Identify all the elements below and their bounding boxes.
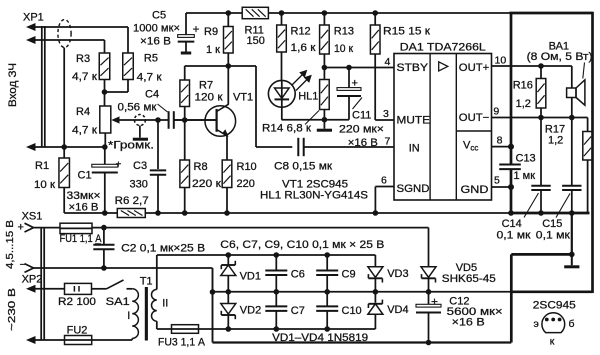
svg-text:HL1: HL1 [298, 91, 318, 103]
potentiometer R4 [104, 92, 106, 106]
svg-text:R8: R8 [194, 161, 208, 173]
R4 wiper arrow [117, 119, 168, 121]
svg-text:C1: C1 [78, 170, 92, 182]
svg-text:+: + [193, 22, 200, 36]
svg-text:C2 0,1 мк×25 В: C2 0,1 мк×25 В [121, 243, 205, 255]
svg-text:SA1: SA1 [106, 296, 130, 308]
VT1 collector [217, 104, 229, 111]
diode VD1 [227, 255, 229, 264]
svg-text:10 к: 10 к [34, 179, 55, 191]
svg-text:+: + [431, 295, 438, 309]
pin 7 wire IN [304, 146, 394, 148]
capacitor C2 [103, 228, 105, 245]
svg-text:1,2: 1,2 [516, 98, 531, 110]
svg-text:9: 9 [493, 106, 499, 118]
svg-text:6: 6 [381, 175, 387, 187]
wire secondary bottom [156, 321, 158, 329]
ground under R14 [323, 120, 325, 129]
svg-text:1,6 к: 1,6 к [291, 42, 316, 54]
svg-text:SHK65-45: SHK65-45 [442, 273, 496, 285]
svg-text:б: б [569, 318, 575, 330]
svg-text:VT1: VT1 [233, 92, 253, 104]
svg-text:R9: R9 [204, 26, 218, 38]
svg-text:C11: C11 [352, 110, 371, 122]
wire thick Vcc drop to pin 8 [510, 13, 513, 147]
svg-text:(8 Ом, 5 Вт): (8 Ом, 5 Вт) [527, 51, 593, 63]
shield drop wire [63, 48, 65, 148]
rectifier AC rail top y=255 [157, 254, 376, 256]
svg-text:3: 3 [383, 108, 389, 120]
svg-text:R13: R13 [334, 26, 354, 38]
svg-text:STBY: STBY [397, 62, 429, 74]
svg-text:220 к: 220 к [192, 178, 221, 190]
plus rail y=292 [213, 291, 512, 293]
XP1 pin 2 arrow and wire [26, 36, 36, 44]
diode VD4 [374, 292, 376, 303]
wire battery plus [34, 227, 61, 229]
svg-text:0,56 мк: 0,56 мк [118, 102, 157, 114]
svg-text:R2 100: R2 100 [58, 296, 96, 308]
resistor R17 [587, 118, 589, 132]
leader line C15 label [556, 194, 570, 218]
svg-text:120 к: 120 к [195, 92, 223, 104]
wire GND pin 5 [492, 186, 512, 188]
ground symbol PSU [571, 254, 573, 265]
svg-text:10: 10 [495, 55, 507, 67]
node collector wire to C8 [228, 65, 256, 67]
capacitor C8 [297, 138, 299, 156]
wire OUT- pin 9 [492, 117, 588, 119]
capacitor C10 [326, 292, 328, 307]
fuse FU1 [60, 223, 92, 233]
svg-text:R4: R4 [76, 106, 90, 118]
wire Vcc top bus thick part to right edge [510, 12, 593, 15]
leader line C4 label [158, 104, 168, 112]
svg-text:−: − [20, 259, 26, 271]
VT1 emitter with arrow [217, 130, 227, 136]
svg-text:×16 В: ×16 В [69, 202, 99, 214]
wire mains row 2 [29, 339, 65, 341]
leader line R14 label [305, 111, 319, 125]
fuse FU2 [65, 336, 92, 345]
svg-text:7: 7 [385, 136, 391, 148]
svg-text:C6: C6 [291, 269, 305, 281]
resistor R15 [372, 10, 378, 16]
resistor R3 [99, 53, 110, 80]
T1 secondary winding II [152, 289, 157, 321]
svg-text:Вход ЗЧ: Вход ЗЧ [7, 63, 19, 107]
wire thick +V right edge down [591, 12, 594, 293]
svg-text:C3: C3 [133, 160, 147, 172]
wire secondary top to rail [156, 255, 158, 289]
resistor R13 [322, 10, 328, 16]
wire R15 to MUTE [374, 54, 376, 120]
svg-text:R12: R12 [291, 26, 311, 38]
T1 core [145, 287, 148, 341]
switch SA1 [107, 280, 124, 289]
LED arrows [292, 71, 311, 91]
svg-text:5: 5 [494, 175, 500, 187]
svg-text:1,2: 1,2 [548, 135, 563, 147]
ground under C5 [181, 52, 191, 55]
thick +V line at 292 right part [511, 290, 592, 293]
svg-text:C5: C5 [152, 10, 166, 22]
IC DA1 TDA7266L box [394, 54, 492, 201]
svg-text:R3: R3 [76, 53, 90, 65]
resistor R10 [222, 160, 232, 188]
resistor R12 [279, 10, 285, 16]
svg-text:R6 2,7: R6 2,7 [115, 195, 149, 207]
svg-text:+: + [18, 222, 24, 234]
svg-text:VD2: VD2 [240, 305, 261, 317]
svg-text:R10: R10 [237, 161, 257, 173]
svg-text:I: I [127, 310, 130, 322]
svg-text:ХР2: ХР2 [22, 274, 43, 286]
svg-text:*Громк.: *Громк. [108, 140, 154, 152]
ground bus y=213 [64, 212, 117, 214]
ground bus continues [145, 212, 511, 214]
svg-text:C10: C10 [342, 305, 362, 317]
wire LED ground bus [282, 119, 350, 121]
resistor R6 [117, 209, 145, 218]
svg-text:C9: C9 [342, 269, 356, 281]
wire battery minus [34, 267, 213, 269]
svg-text:э: э [534, 318, 539, 330]
resistor R7 [185, 65, 229, 67]
node STBY wire pin 4 [324, 67, 394, 69]
pin 6 wire SGND [375, 186, 394, 188]
leader line C11 label [353, 98, 363, 110]
resistor R5 [123, 53, 134, 80]
svg-text:C15: C15 [542, 218, 562, 230]
capacitor C14 [540, 118, 542, 186]
svg-text:IN: IN [409, 143, 420, 155]
resistor R14 [320, 80, 330, 110]
thick ground vertical to bottom bus [510, 254, 513, 342]
svg-text:C6, C7, C9, C10 0,1 мк × 25 В: C6, C7, C9, C10 0,1 мк × 25 В [220, 239, 384, 251]
svg-text:1 к: 1 к [206, 44, 220, 56]
capacitor C12 [428, 292, 430, 307]
svg-text:к: к [550, 336, 555, 348]
svg-text:33мк×: 33мк× [67, 190, 101, 202]
capacitor C3 [157, 120, 159, 169]
svg-text:2SC945: 2SC945 [533, 300, 576, 312]
svg-text:HL1 RL30N-YG414S: HL1 RL30N-YG414S [260, 190, 368, 202]
svg-text:DA1 TDA7266L: DA1 TDA7266L [400, 42, 486, 54]
svg-text:×16 В: ×16 В [452, 317, 485, 329]
svg-text:8: 8 [497, 135, 503, 147]
svg-text:VD3: VD3 [387, 268, 408, 280]
svg-text:330: 330 [130, 179, 148, 191]
speaker feed wire OUT+ pin 10 [492, 65, 572, 67]
svg-text:~230 В: ~230 В [6, 288, 18, 331]
svg-text:VD1–VD4 1N5819: VD1–VD4 1N5819 [272, 332, 368, 344]
svg-text:0,1 мк: 0,1 мк [536, 230, 570, 242]
svg-text:C13: C13 [516, 153, 536, 165]
capacitor C1 [104, 147, 106, 166]
LED HL1 [268, 80, 295, 107]
leader line BA1 label [583, 63, 585, 79]
svg-text:220 мк×: 220 мк× [339, 124, 384, 136]
diode VD5 [428, 228, 430, 267]
diode VD3 [374, 255, 376, 267]
svg-text:C14: C14 [502, 218, 522, 230]
svg-text:ХР1: ХР1 [23, 12, 44, 24]
bottom bus y=341 [213, 341, 512, 343]
wire Vcc top bus (thin part) [186, 12, 242, 14]
svg-text:FU3 1,1 А: FU3 1,1 А [158, 336, 206, 348]
capacitor C15 [571, 118, 573, 186]
svg-text:II: II [162, 298, 168, 310]
svg-text:1000 мк×: 1000 мк× [133, 23, 180, 35]
transistor VT1 2SC945 [205, 106, 236, 137]
diode VD2 [227, 292, 229, 304]
svg-text:4,7 к: 4,7 к [72, 125, 97, 137]
svg-text:×16 В: ×16 В [140, 36, 171, 48]
svg-text:220: 220 [237, 178, 255, 190]
svg-text:VD1: VD1 [240, 271, 261, 283]
thick ground link down from bus [571, 213, 573, 254]
svg-text:4,7 к: 4,7 к [137, 72, 162, 84]
wire Vcc pin 8 [492, 146, 512, 148]
leader line C14 label [524, 193, 539, 218]
capacitor C5 [185, 13, 187, 35]
svg-text:R15 15 к: R15 15 к [383, 26, 430, 38]
svg-text:C4: C4 [145, 89, 159, 101]
XP1 pin 3 (shield return) arrow and wire [26, 143, 36, 151]
resistor R1 [63, 147, 65, 158]
ground bus thick right part [510, 212, 590, 215]
svg-text:R14 6,8 к: R14 6,8 к [262, 123, 311, 135]
ground under volume jack [133, 138, 148, 141]
svg-text:R5: R5 [144, 53, 158, 65]
T1 primary winding I [132, 289, 138, 339]
resistor R9 [227, 13, 229, 27]
capacitor C6 [275, 255, 277, 270]
svg-text:4,7 к: 4,7 к [72, 71, 97, 83]
svg-text:OUT+: OUT+ [459, 62, 490, 74]
XP1 pin 1 arrow and wire [26, 23, 36, 31]
wire wiper to C4 [155, 117, 161, 123]
svg-text:0,1 мк: 0,1 мк [497, 230, 531, 242]
wire to R5 [127, 27, 129, 53]
capacitor C7 [275, 292, 277, 307]
svg-text:+: + [352, 78, 358, 90]
resistor R8 [180, 160, 190, 188]
svg-text:OUT−: OUT− [459, 112, 490, 124]
op-amp triangle inside DA1 [439, 62, 448, 71]
svg-text:C7: C7 [291, 305, 305, 317]
wire battery plus continues [92, 227, 429, 229]
resistor R2 (fusible) [65, 283, 92, 294]
svg-text:SGND: SGND [397, 183, 430, 195]
svg-text:1 мк: 1 мк [514, 170, 536, 182]
svg-text:R16: R16 [513, 80, 533, 92]
connector body double lines [41, 26, 43, 147]
svg-text:XS1: XS1 [22, 211, 43, 223]
svg-text:GND: GND [461, 184, 489, 196]
svg-text:FU2: FU2 [67, 325, 88, 337]
svg-text:FU1 1,1 А: FU1 1,1 А [60, 233, 103, 245]
svg-text:Т1: Т1 [140, 276, 153, 288]
svg-text:4: 4 [385, 56, 391, 68]
capacitor C11 [348, 68, 350, 91]
svg-text:150: 150 [247, 35, 265, 47]
capacitor C9 [326, 255, 328, 270]
capacitor C4 [168, 111, 170, 129]
svg-text:VD4: VD4 [387, 304, 408, 316]
fuse FU3 [172, 325, 199, 334]
wire mains row 1 [29, 288, 65, 290]
shield ellipse [58, 20, 71, 48]
svg-text:MUTE: MUTE [397, 115, 431, 127]
svg-text:10 к: 10 к [334, 43, 353, 55]
resistor R11 [242, 7, 268, 18]
speaker BA1 [567, 88, 576, 98]
svg-text:+: + [116, 160, 122, 171]
svg-text:4,5...15 В: 4,5...15 В [4, 220, 16, 269]
rectifier AC rail bottom y=329 [199, 328, 376, 330]
svg-text:C8 0,15 мк: C8 0,15 мк [274, 161, 332, 173]
svg-text:R1: R1 [35, 160, 49, 172]
capacitor C13 [510, 147, 513, 165]
svg-text:R7: R7 [199, 80, 213, 92]
resistor R16 [540, 66, 542, 79]
volume jack circle (dashed) [134, 115, 145, 126]
connector double lines XS1/XP2 [40, 228, 42, 340]
